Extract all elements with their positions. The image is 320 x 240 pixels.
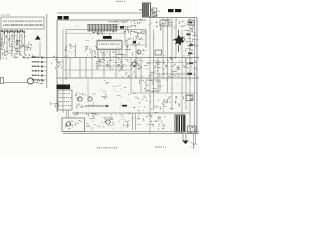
signal arrow [85,105,109,107]
IC U301 box [97,41,122,49]
wire from pin 6 [14,34,16,43]
T101 snubber box lower [152,13,157,17]
warning triangle symbol [35,35,41,39]
switching transformer T601 (hatched) [175,115,185,132]
main board top edge [57,19,146,21]
inner shield box left edge [65,30,67,80]
parts x63-80 y44-56 [65,44,76,58]
bus y93 right [130,92,197,94]
bottom caption text [97,147,117,148]
relay box [155,50,162,55]
inner mesh line y33 [66,32,125,34]
connector pin label P103 [32,66,39,67]
left board edge wire [0,33,2,60]
vertical wire v13 [135,44,137,78]
connector pin label P102 [32,61,39,62]
wire from P104 [39,70,47,72]
dark component on bus y27 [120,26,124,29]
tick marks on bottom box top [74,112,95,117]
wire from pin 8 [19,34,21,56]
bottom outline [63,133,199,135]
bus y70 [63,69,132,71]
resistor ladder R201-R210 [88,25,90,32]
bottom cluster b2 [104,115,117,128]
wire speaker to coil [4,82,28,84]
top strip parts [113,19,141,31]
resistors crossing main edge [51,55,63,69]
vertical wire v9 [115,49,117,78]
T101 snubber parts [152,11,160,18]
inner shield box top edge [66,29,146,31]
left circuit small parts column [25,42,32,55]
right bottom verticals [193,134,195,149]
right column component C902 [187,34,191,36]
wire from pin 10 [24,34,26,56]
degauss coil circle [28,78,34,84]
right box parts [186,95,193,101]
speaker connector [1,78,4,84]
parts x124-146 y35-56 [125,36,147,57]
wire from pin 1 [1,34,3,51]
wire from pin 9 [21,34,23,48]
sub board top edge [150,17,197,19]
vertical wire v5 [91,49,93,78]
sub board right parts [188,19,196,30]
parts right of flyback [185,28,199,52]
dense solder row [3,55,35,61]
vertical wire v25 [194,18,196,134]
resistor group left of IC [85,40,98,53]
inner box 2 bottom edge [125,44,146,46]
vertical wire v24 [189,18,191,134]
IC block CN101 outline [1,17,44,29]
scan speck texture [62,23,191,131]
vertical wire v4 [85,58,87,79]
diode D601 at arrow start [76,104,84,109]
bottom bus [63,131,199,133]
vertical wire v23 [185,58,187,111]
line output transformer T101 (hatched) [143,3,151,17]
AC plug cluster [190,142,197,147]
parts cluster m4 [145,61,160,78]
top bus wire [57,12,143,14]
inner box 2 left edge [124,31,126,46]
vertical wire v11 [126,42,128,58]
mesh wire y66 center [95,65,132,67]
power block label (black) [57,85,71,90]
parts x132-160 y78-108 [133,80,163,108]
IC U301 pin stubs [97,49,99,57]
top caption text [116,1,125,2]
sub board label (black) [168,9,174,12]
left box right edge [46,14,48,88]
IC U301 inner text [99,44,120,45]
sub board connector boxes [160,20,169,26]
mains wires down [182,134,184,141]
right column component R906 [188,73,193,75]
transistor Q603 circle [88,97,92,101]
bottom cluster b4 [137,109,154,125]
right column component R903 [189,45,193,47]
coil value label [37,81,44,82]
wire from pin 4 [9,34,11,48]
parts cluster m6 (dense) [184,55,197,80]
fuse and jack parts left of arrow [49,101,59,107]
wire from P101 [39,56,47,58]
wire from P105 [39,74,47,76]
vertical wire v20 [171,18,173,110]
T101 snubber box upper [152,8,157,12]
vertical pair x132-136 [132,113,134,130]
bottom caption right [155,147,166,148]
parts in bottom box [65,120,83,129]
vertical wire x75 [75,44,77,57]
vertical wire v10 [121,49,123,70]
wire bus to arrow [87,78,89,103]
IC block pin text row 1 [3,21,42,22]
transistor pair Q601 [75,92,95,106]
vertical wire v3 [79,58,81,79]
transistor Q401 [132,62,136,66]
bottom box outline [62,118,85,132]
parts under IC U301 [94,52,126,69]
parts cluster m7 [122,59,148,78]
vertical wire v7 [103,49,105,78]
vertical wire v14 [140,58,142,94]
wire from pin 5 [11,34,13,56]
regulator box text [60,93,70,94]
bridge rectifier box [188,126,197,133]
tuner/CRT connector block label text [1,15,10,16]
double drop wires [66,110,68,118]
vertical wire v18 [162,18,164,78]
flyback core (dark starburst) [174,35,185,46]
board tint left [0,17,46,59]
right column component D904 [188,53,193,55]
wire from P103 [39,65,47,67]
bus wire y22 [108,21,128,23]
wire from pin 7 [16,34,18,53]
vertical wire v8 [109,49,111,70]
vertical wire v15 [149,18,151,134]
IC block pin header row [1,30,2,33]
wire coil to label [34,82,38,84]
vertical wire v21 [175,18,177,58]
bottom box top edge long [72,112,190,114]
main board label (black) [58,16,63,19]
bottom cluster b5 [153,111,166,130]
regulator sub-box [58,90,72,110]
board tint main [57,20,197,133]
box x146-160 y80-92 [146,80,160,91]
sparse parts x100-130 y80-100 [101,80,129,99]
bus y78 [57,77,199,79]
parts cluster m5 (dense) [163,56,180,79]
dense row under inner box [93,30,147,38]
main bus y57.5 [36,57,199,59]
vertical wire v1 [62,30,64,113]
vertical wire v2 [69,58,71,79]
inner shield box right edge [145,30,147,48]
wire from P106 [39,79,47,81]
main board left edge [56,20,58,112]
bottom cluster b3 [119,113,131,128]
vertical wire v12 [130,58,132,94]
vertical wire v6 [97,49,99,70]
transistor Q303 [137,50,141,54]
vertical wire v16 [153,30,155,110]
right column component C905 [189,63,193,65]
parts cluster m2 [117,62,126,72]
connector sub-box [25,30,32,34]
parts cluster m3 [130,59,141,70]
right column component R901 [189,22,193,24]
bus wire y27 [108,26,132,28]
connector pin label P101 [32,57,39,58]
resistor ladder top wire [87,24,118,26]
parts cluster m1 [96,59,103,67]
IC U301 label (black) [103,36,112,39]
dark cluster x160-180 y95-110 [160,96,180,111]
connector pin label P106 [32,79,39,80]
transistor Q602 circle [78,97,82,101]
dark dash near arrow [122,105,127,107]
vertical wire v19 [167,18,169,93]
sub board small box [188,20,194,25]
wire from pin 2 [4,34,6,45]
vertical wire v17 [157,58,159,94]
ground triangle [182,141,189,145]
connector pin label P104 [32,70,39,71]
bottom cluster b1 [86,114,101,131]
wire from P102 [39,61,47,63]
sub board right edge [196,18,198,133]
transistor Q701 circle [106,120,110,124]
connector pin label P105 [32,75,39,76]
vertical wire v22 [181,30,183,134]
left circuit component scatter [0,34,27,58]
mesh wire y62.5 right [146,62,197,64]
IC block pin text row 2 [3,24,43,26]
wire from pin 3 [6,34,8,56]
mesh wire y74 right [150,73,190,75]
